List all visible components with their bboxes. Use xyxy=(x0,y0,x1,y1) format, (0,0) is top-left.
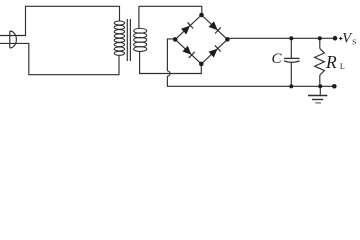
ground bar 2 xyxy=(312,99,323,101)
transformer T1 core xyxy=(127,19,130,61)
ground stem xyxy=(319,86,321,94)
bridge edge BL xyxy=(175,39,201,64)
wire: top output rail xyxy=(227,37,335,39)
node: ground junction dot xyxy=(318,84,322,88)
node: bridge left junction dot xyxy=(173,37,178,42)
node: resistor top junction dot xyxy=(318,36,322,40)
wire: bridge left node down to ground rail (with hop) xyxy=(167,39,175,71)
transformer T1 primary coil xyxy=(114,21,124,55)
resistor RL zigzag xyxy=(315,49,325,76)
diode D3 (lower-left arm) xyxy=(182,46,194,58)
svg-text:L: L xyxy=(340,62,345,71)
bridge edge LT xyxy=(175,15,201,39)
node: bridge bottom junction dot xyxy=(199,62,204,67)
svg-text:S: S xyxy=(352,37,356,46)
plug P1 body arc xyxy=(10,31,17,48)
wire: secondary top to bridge top node xyxy=(139,6,202,29)
ground bar 1 xyxy=(308,95,327,97)
terminal: +Vs output dot xyxy=(333,36,338,41)
diode D4 (lower-right arm) xyxy=(209,45,221,57)
resistor RL top lead xyxy=(319,38,321,48)
capacitor C1 bottom lead xyxy=(290,62,292,86)
crossover hop xyxy=(167,71,170,76)
node: capacitor top junction dot xyxy=(289,36,293,40)
label +Vs xyxy=(339,37,343,41)
ground bar 3 xyxy=(315,102,321,104)
bridge edge TR xyxy=(202,15,228,39)
capacitor C1 top lead xyxy=(290,38,292,58)
svg-text:R: R xyxy=(325,52,337,72)
node: bridge right junction dot xyxy=(225,37,230,42)
capacitor C1 curved plate xyxy=(284,61,300,63)
resistor RL bottom lead xyxy=(319,75,321,86)
svg-text:C: C xyxy=(272,51,283,67)
diode D1 (upper-left arm) xyxy=(181,22,193,34)
wire: secondary bottom to bridge bottom node xyxy=(140,51,202,74)
capacitor C1 top plate xyxy=(284,57,300,59)
diode D2 (upper-right arm) xyxy=(209,21,221,33)
terminal: return output dot xyxy=(332,84,337,89)
node: bridge top junction dot xyxy=(199,13,204,18)
wire: bottom prong down and across to primary bottom lead xyxy=(0,43,119,74)
node: capacitor bottom junction dot xyxy=(289,84,293,88)
wire: top prong to top rail to primary top lead xyxy=(0,6,120,35)
plug P1 faceplate bar xyxy=(9,31,11,48)
transformer T1 secondary coil xyxy=(134,28,147,51)
wire: bottom ground rail xyxy=(167,76,334,86)
bridge edge RB xyxy=(201,39,227,64)
